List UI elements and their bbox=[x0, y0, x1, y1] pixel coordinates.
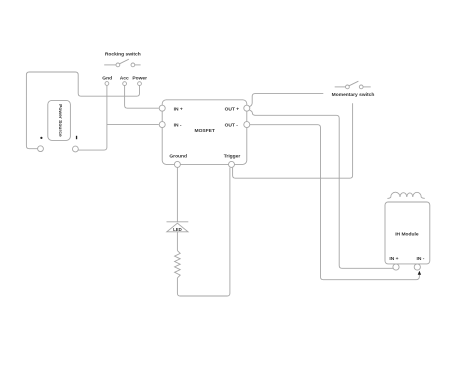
svg-text:Acc: Acc bbox=[120, 75, 129, 81]
wire MOSFET OUT+ down to IH module IN+ bbox=[250, 110, 394, 268]
resistor R1 zigzag bbox=[175, 251, 181, 278]
IH module coil L1 bbox=[387, 192, 424, 198]
MOSFET pin OUT- circle bbox=[244, 122, 250, 128]
svg-text:IH Module: IH Module bbox=[395, 232, 419, 238]
svg-text:Momentary switch: Momentary switch bbox=[332, 92, 375, 98]
MOSFET U1 box bbox=[162, 100, 247, 165]
svg-text:IN -: IN - bbox=[417, 256, 425, 262]
svg-text:Trigger: Trigger bbox=[224, 153, 241, 159]
battery terminal plus circle bbox=[73, 146, 79, 152]
svg-text:IN +: IN + bbox=[174, 106, 183, 112]
node Gnd terminal circle bbox=[105, 82, 109, 86]
IH module pin IN+ circle bbox=[393, 264, 399, 270]
svg-text:IN -: IN - bbox=[174, 122, 182, 128]
power source BT1 box bbox=[48, 100, 71, 140]
wire MOSFET OUT- to IH module IN- bbox=[250, 125, 420, 280]
wire Acc terminal to MOSFET IN+ bbox=[125, 86, 159, 109]
wire resistor bottom loop up to Trigger bbox=[177, 168, 230, 296]
svg-text:MOSFET: MOSFET bbox=[195, 128, 215, 134]
svg-text:IN +: IN + bbox=[389, 256, 398, 262]
svg-text:OUT +: OUT + bbox=[225, 106, 240, 112]
wire LED to resistor bbox=[176, 232, 178, 251]
arrowhead into IH module IN- bbox=[418, 271, 421, 275]
svg-text:OUT -: OUT - bbox=[225, 122, 239, 128]
svg-text:Ground: Ground bbox=[169, 153, 187, 159]
wire battery minus loop to Power terminal bbox=[26, 72, 139, 149]
svg-text:Power: Power bbox=[132, 75, 147, 81]
wire MOSFET OUT+ up to momentary switch bbox=[250, 94, 324, 107]
label battery plus mark bbox=[76, 136, 77, 139]
svg-text:Power Source: Power Source bbox=[57, 104, 63, 137]
MOSFET pin OUT+ circle bbox=[244, 105, 250, 111]
svg-text:Gnd: Gnd bbox=[102, 75, 112, 81]
node Power terminal circle bbox=[138, 82, 142, 86]
MOSFET pin Ground circle bbox=[174, 161, 180, 167]
wire battery plus to Gnd terminal bbox=[78, 85, 107, 150]
wire MOSFET Ground down to LED bbox=[176, 167, 178, 221]
wire momentary switch down to MOSFET Trigger bbox=[233, 103, 353, 178]
svg-text:LED: LED bbox=[173, 227, 182, 232]
MOSFET pin Trigger circle bbox=[229, 161, 235, 167]
IH module pin IN- circle bbox=[414, 264, 420, 270]
node Acc terminal circle bbox=[123, 82, 127, 86]
MOSFET pin IN- circle bbox=[159, 122, 165, 128]
label battery minus mark bbox=[40, 137, 42, 139]
battery terminal minus circle bbox=[38, 146, 44, 152]
IH module U2 box bbox=[385, 202, 430, 264]
svg-text:Rocking switch: Rocking switch bbox=[105, 51, 141, 57]
rocking switch SW1 bbox=[104, 59, 140, 67]
MOSFET pin IN+ circle bbox=[159, 105, 165, 111]
LED D1 symbol bbox=[167, 222, 189, 232]
wire Gnd net branch to MOSFET IN- bbox=[107, 124, 159, 126]
momentary switch SW2 bbox=[335, 81, 371, 89]
